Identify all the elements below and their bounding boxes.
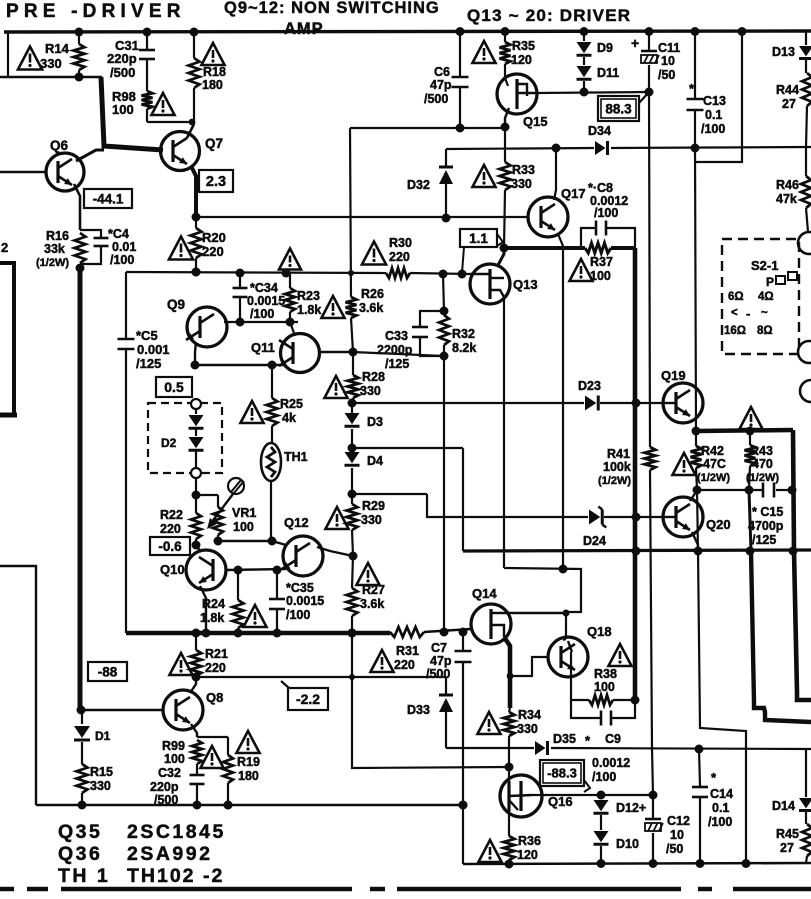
wire Q16 emitter row y795 [532,794,654,796]
svg-text:330: 330 [511,177,532,191]
svg-text:27: 27 [782,97,796,111]
wire y448 to output bus [352,447,463,449]
svg-text:Q20: Q20 [706,517,731,532]
wire thick output B [749,490,751,551]
wire x697 to jog [697,490,746,863]
svg-text:2SA992: 2SA992 [127,843,212,865]
transistor Q19 [663,383,703,423]
svg-text:R41: R41 [607,447,630,461]
resistor R19 [227,737,229,755]
svg-text:/500: /500 [154,793,178,807]
resistor R14 [74,44,85,70]
svg-text:220: 220 [394,658,415,672]
svg-text:R31: R31 [396,644,419,658]
svg-text:1.8k: 1.8k [200,611,224,625]
svg-text:C11: C11 [658,41,680,55]
adjustment screw symbol [228,478,244,494]
wire bus y272 [126,272,386,273]
svg-text:P: P [766,275,774,289]
svg-text:PRE -DRIVER: PRE -DRIVER [6,1,186,22]
svg-text:R37: R37 [590,255,613,269]
svg-text:D2: D2 [161,436,177,450]
svg-text:88.3: 88.3 [605,101,632,116]
transistor Q11 [281,334,320,373]
wire Q20 emitter [692,532,698,551]
svg-text:220: 220 [205,661,226,675]
svg-text:220: 220 [202,244,224,259]
wire Q8 collector [190,677,196,693]
svg-text:4k: 4k [282,411,296,425]
svg-text:2: 2 [1,240,8,255]
node dots top rail [75,28,84,37]
resistor R44 partial [802,73,811,106]
svg-text:D23: D23 [578,379,601,393]
svg-text:D12+: D12+ [616,801,646,815]
svg-text:180: 180 [202,78,223,92]
svg-text:Q12: Q12 [284,515,309,530]
capacitor C7 [462,632,464,650]
svg-text:R14: R14 [45,41,70,56]
label box 0.5 [156,377,192,397]
resistor R18 [189,58,200,88]
wire x695 long vertical [695,147,696,431]
label box -88.3 [540,760,584,786]
relay contact mid [800,380,811,402]
svg-text:/125: /125 [752,533,776,547]
svg-text:1.8k: 1.8k [297,303,321,317]
label box -88 [88,662,127,681]
resistor R33 [504,128,506,162]
svg-text:4700p: 4700p [748,519,784,533]
svg-text:/500: /500 [424,92,448,106]
wire Q12 base [272,541,286,545]
svg-text:47C: 47C [703,457,726,471]
resistor R29 [351,494,353,504]
transistor Q8 [163,690,203,730]
svg-text:R24: R24 [202,597,225,611]
wire y677 Q8 collector to D33 [196,676,446,678]
svg-text:R16: R16 [46,229,69,243]
wire Q11 emitter extension to R32 bottom [353,352,444,356]
svg-text:0.1: 0.1 [705,108,722,122]
svg-text:*·C8: *·C8 [588,181,613,195]
svg-text:0.01: 0.01 [112,240,136,254]
wire Q12 emitter to y570 [287,568,290,569]
wire Q18 base [510,657,548,676]
svg-text:6Ω: 6Ω [728,291,744,303]
svg-text:/125: /125 [136,356,161,371]
wire Q18 collector [563,639,566,640]
svg-text:S2-1: S2-1 [751,258,778,273]
svg-text:Q16: Q16 [548,794,573,809]
wire rail y633 into Q14 base [126,631,390,635]
diode D32 [445,149,447,166]
resistor R15 [77,764,88,793]
wire top jog x742 [696,31,742,162]
resistor R34 [509,708,510,712]
svg-text:/100: /100 [286,608,310,622]
svg-text:/100: /100 [701,122,725,136]
diodes D9 D11 [583,31,585,41]
svg-text:R38: R38 [594,667,617,681]
svg-text:C33: C33 [385,329,408,343]
diode D33 [445,677,447,694]
wire Q13 emitter chain [503,300,505,568]
dashed box around D2 [148,403,222,473]
resistor R27 [352,556,353,588]
svg-text:27: 27 [780,841,794,855]
svg-text:R18: R18 [203,65,226,79]
svg-text:R27: R27 [362,583,385,597]
svg-text:R30: R30 [389,236,412,250]
wire top supply rail [4,31,811,32]
wire y322 Q9 collector rail [224,321,298,323]
resistor R30 inline [386,268,410,278]
svg-text:-2.2: -2.2 [296,691,320,707]
svg-text:R15: R15 [90,765,113,779]
wire Q11 emitter to x353 [318,351,353,353]
svg-text:R21: R21 [205,647,228,661]
svg-text:AMP: AMP [284,20,324,38]
diode D23 [585,396,596,411]
svg-text:470: 470 [752,457,773,471]
relay contact bottom [798,341,811,363]
svg-text:Q9: Q9 [167,297,185,312]
svg-text:1.1: 1.1 [469,231,488,246]
svg-text:47p: 47p [430,78,452,92]
svg-text:D13: D13 [772,45,795,59]
svg-text:(1/2W): (1/2W) [746,472,779,484]
capacitor C8 loop [581,228,595,248]
wire C33 R32 branch from bus [443,274,444,311]
svg-text:D9: D9 [597,41,613,55]
resistor R28 [352,352,354,375]
wire Q20 collector [690,490,697,501]
capacitor C34 with resistor R23 parallel [239,273,241,287]
wire thick y248 Q13 collector to x635 [504,246,585,250]
svg-text:3.6k: 3.6k [360,597,384,611]
svg-text:R36: R36 [518,834,541,848]
wire Q9 emitter down [195,342,196,365]
wire y365 [195,364,284,366]
resistor R25 [271,365,273,398]
capacitor C6 [459,32,461,76]
diodes D12 D10 [600,795,602,799]
svg-text:/500: /500 [110,65,135,80]
svg-text:Q8: Q8 [206,690,223,705]
wire Q8 base feed [80,709,164,712]
svg-text:Q11: Q11 [251,340,275,355]
svg-text:-88: -88 [98,664,118,679]
wire bottom rail y864 [462,805,464,864]
svg-text:D11: D11 [597,66,619,80]
svg-text:D35: D35 [553,732,576,746]
svg-text:Q10: Q10 [160,562,185,577]
svg-text:Q18: Q18 [587,624,612,639]
transistor Q13 [470,264,510,304]
svg-text:10: 10 [670,828,684,842]
switch S2-1 dashed box [722,239,799,354]
resistor R43 [749,431,751,445]
diode D2 pair [195,409,197,414]
wire left mid to bottom rail [0,566,36,805]
capacitor C15 [697,489,762,491]
svg-text:R22: R22 [160,508,183,522]
svg-text:/100: /100 [592,770,616,784]
wire Q10 collector [196,545,201,552]
resistor R42 [691,446,702,468]
resistor R99 [192,740,202,764]
capacitor C35 [276,570,278,598]
wire Q17 emitter chain [558,234,563,569]
resistor R36 [508,811,510,836]
svg-text:*C5: *C5 [136,328,158,343]
svg-text:R34: R34 [518,708,541,722]
resistor R98 [142,91,153,109]
svg-text:16Ω: 16Ω [724,325,746,337]
wire x353 main chain from y128 [350,128,351,297]
svg-text:330: 330 [90,779,111,793]
svg-text:Q36: Q36 [58,843,102,865]
svg-text:+: + [631,35,639,51]
wire Q6 base [0,171,46,173]
svg-text:*C34: *C34 [250,281,278,295]
svg-text:C7: C7 [431,641,447,655]
svg-text:<: < [731,307,738,319]
variable resistor VR1 [213,507,223,535]
resistor R22 [191,513,201,539]
resistor R31 inline [390,627,424,637]
svg-text:R26: R26 [361,287,384,301]
svg-text:C9: C9 [605,732,621,746]
wire Q12 collector to x353 [317,547,353,556]
svg-text:R46: R46 [776,178,799,192]
svg-text:180: 180 [238,769,259,783]
wire Q6 emitter [74,184,80,230]
svg-text:220: 220 [160,522,181,536]
svg-text:0.5: 0.5 [164,379,184,395]
svg-text:C6: C6 [434,65,450,79]
diode D24 zener [589,510,600,525]
wire Q10 emitter [200,586,206,633]
resistor R16 with capacitor C4 parallel [75,233,86,263]
svg-text:100: 100 [164,752,185,766]
svg-text:Q35: Q35 [58,821,102,843]
svg-text:Q17: Q17 [561,186,586,201]
capacitor C5 [125,272,127,338]
transistor Q15 [497,74,537,114]
svg-text:C13: C13 [703,94,726,108]
svg-text:-: - [746,306,750,321]
capacitor C33 [420,311,444,326]
svg-text:*C35: *C35 [286,581,314,595]
svg-text:8Ω: 8Ω [757,325,773,337]
label box -44.1 [84,189,132,208]
transistor Q14 [471,604,511,644]
svg-text:R42: R42 [701,444,724,458]
svg-text:0.0015: 0.0015 [247,294,285,308]
resistor R26 [346,297,357,318]
label box 1.1 [460,229,497,247]
resistor R20 [191,228,202,258]
wire Q8 emitter split [191,724,197,737]
svg-text:R33: R33 [512,163,535,177]
wire x444 down to rail [443,356,445,632]
svg-text:R35: R35 [512,39,535,53]
resistor R45 partial [805,812,807,824]
svg-text:8.2k: 8.2k [452,341,476,355]
wire thick Q7 feed [101,77,163,150]
svg-text:/100: /100 [594,206,618,220]
svg-text:10: 10 [661,54,675,68]
svg-text:R44: R44 [776,83,799,97]
svg-text:/50: /50 [666,842,683,856]
diode D1 [81,710,83,724]
transistor Q7 [161,132,200,171]
wire y494 to D24 [352,493,427,495]
wire x650 long vertical [649,92,650,447]
svg-text:R23: R23 [297,289,320,303]
svg-text:Q9~12: NON SWITCHING: Q9~12: NON SWITCHING [224,0,440,17]
svg-text:/125: /125 [385,357,409,371]
capacitor C14 [699,749,700,786]
svg-text:330: 330 [517,722,538,736]
capacitor C12 electrolytic [652,795,654,818]
svg-text:TH 1: TH 1 [58,865,110,887]
svg-text:0.001: 0.001 [137,342,170,357]
resistor R37 label [569,259,592,281]
transistor Q20 [663,497,703,537]
svg-text:R32: R32 [452,327,475,341]
wire thick left feedback vertical [78,268,83,710]
svg-text:330: 330 [40,56,62,71]
capacitor C13 [694,31,696,98]
svg-text:D34: D34 [588,124,611,138]
capacitor C32 [196,764,198,774]
wire y495 to VR1 [196,494,218,496]
svg-text:R19: R19 [237,755,260,769]
wire y92 Q15 emitter row [537,92,649,93]
svg-text:TH102 -2: TH102 -2 [127,865,224,887]
svg-text:(1/2W): (1/2W) [598,475,631,487]
box Q2 left edge [0,263,14,413]
svg-text:Q14: Q14 [472,586,497,601]
svg-text:D10: D10 [616,837,639,851]
wire y148 rail [446,148,594,149]
capacitor C11 electrolytic [648,31,650,50]
wire bottom rail y805 [36,804,466,807]
svg-text:D33: D33 [407,703,430,717]
svg-text:33k: 33k [44,242,65,256]
svg-text:* C15: * C15 [752,505,783,519]
diode D4 [351,448,353,452]
svg-text:120: 120 [511,53,532,67]
svg-text:Q13: Q13 [513,277,538,292]
relay contact top [798,232,811,254]
wire Q17 collector [554,148,556,200]
wire box bottom x352 to Q16 collector [352,633,509,768]
svg-text:C14: C14 [710,787,733,801]
svg-text:0.0012: 0.0012 [592,756,630,770]
label box 2.3 [199,170,233,192]
svg-text:330: 330 [360,384,381,398]
svg-text:-44.1: -44.1 [93,191,124,206]
svg-text:R99: R99 [162,739,185,753]
thermistor TH1 [261,443,281,481]
node open circle bottom [191,468,201,478]
svg-text:100: 100 [590,269,611,283]
wire R38 C9 parallel [568,641,572,652]
wire y77 horizontal [0,76,102,79]
svg-text:R20: R20 [202,230,226,245]
svg-text:(1/2W): (1/2W) [36,257,69,269]
svg-text:47k: 47k [776,192,797,206]
svg-text:4Ω: 4Ω [758,291,774,303]
svg-text:C12: C12 [667,814,690,828]
svg-text:-0.6: -0.6 [158,539,182,554]
svg-text:R29: R29 [362,499,385,513]
transistor Q17 [528,197,568,237]
svg-text:220: 220 [389,250,410,264]
transistor Q12 [283,536,323,576]
svg-text:3.6k: 3.6k [359,301,383,315]
svg-text:~: ~ [761,307,768,319]
svg-text:C32: C32 [158,766,181,780]
wire Q19 base [663,402,676,404]
svg-text:100: 100 [594,680,615,694]
label box 88.3 [598,96,639,121]
svg-text:VR1: VR1 [232,506,256,520]
wire y217 Q7 emitter to Q17 base [196,216,528,218]
svg-text:220p: 220p [107,51,137,66]
svg-text:D32: D32 [407,178,430,192]
diode D35 [535,741,546,755]
svg-text:D14: D14 [772,799,795,813]
svg-text:Q6: Q6 [50,138,69,153]
svg-text:0.1: 0.1 [712,801,729,815]
wire y748 D35 row [446,747,534,749]
svg-text:R43: R43 [750,444,773,458]
resistor R35 [504,32,506,42]
diode D14 partial [805,749,807,797]
resistor R32 [439,315,449,345]
wire Q7 emitter to y217 [191,166,196,217]
svg-text:TH1: TH1 [284,450,308,464]
svg-text:D4: D4 [367,454,383,468]
svg-text:2200p: 2200p [377,343,413,357]
wire y570 Q10 base to Q12 [226,569,286,570]
svg-text:2SC1845: 2SC1845 [127,821,226,843]
label box -0.6 [150,537,190,555]
wire y128 Q15 collector [350,127,505,129]
node open circle top [191,399,201,409]
svg-text:Q19: Q19 [661,368,686,383]
svg-text:D24: D24 [583,534,606,548]
svg-text:100: 100 [112,102,134,117]
wire output bus y551 [463,550,811,551]
transistor Q6 [46,153,84,191]
svg-text:220p: 220p [150,780,179,794]
transistor Q18 [548,637,588,677]
label box -2.2 [288,688,328,710]
wire bus y431 with corner down [696,430,793,431]
svg-text:R25: R25 [280,397,303,411]
svg-text:Q7: Q7 [205,136,223,151]
svg-text:-88.3: -88.3 [547,766,577,781]
svg-text:2.3: 2.3 [206,174,226,190]
transistor Q16 [500,775,542,817]
wire thick output A [793,430,811,700]
